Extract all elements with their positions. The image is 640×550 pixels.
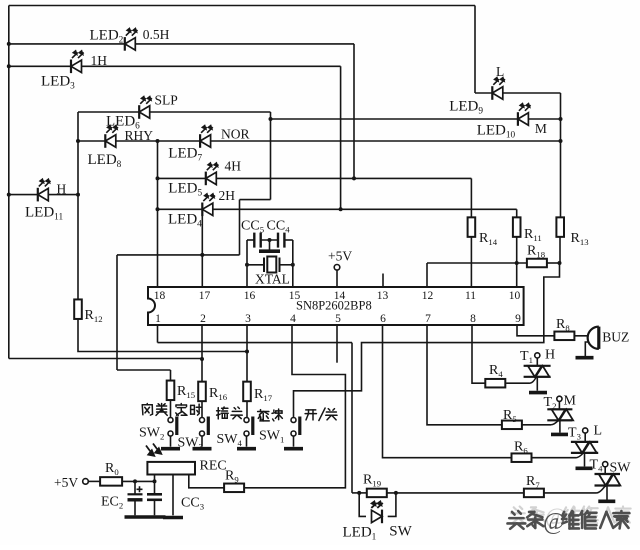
- node p10-r18: [515, 261, 519, 265]
- wire +5V to R0: [88, 480, 100, 482]
- wire row y255: [117, 254, 240, 256]
- wire LED11 row: [9, 194, 78, 196]
- wire T1 gate diagonal: [530, 377, 537, 384]
- wire cc mid lead: [261, 239, 278, 241]
- svg-text:LED5: LED5: [168, 181, 202, 199]
- svg-text:6: 6: [380, 313, 386, 325]
- wire REC right pin to R9: [189, 475, 225, 488]
- IR receiver REC: [146, 444, 195, 475]
- wire SLP jog v: [239, 200, 241, 255]
- node slp-led10: [269, 117, 273, 121]
- node p2-rail: [200, 357, 204, 361]
- wire T1 top lead: [536, 358, 538, 366]
- svg-text:4: 4: [290, 313, 296, 325]
- wire SW4 to ground: [246, 436, 248, 447]
- wire pin4 to R9 route: [244, 325, 346, 488]
- resistor R8: [554, 332, 574, 341]
- label label 定时 timer: [176, 404, 202, 416]
- triac T3: [571, 442, 598, 453]
- wire row y255 to R15 v: [116, 255, 118, 370]
- crystal XTAL: [264, 257, 280, 273]
- ground SW2 ground: [161, 447, 180, 451]
- wire LED10 row: [271, 118, 561, 120]
- wire R19 left lead: [352, 492, 367, 494]
- wire R8 to BUZ: [574, 335, 592, 337]
- svg-text:L: L: [496, 64, 504, 79]
- svg-text:XTAL: XTAL: [255, 272, 290, 287]
- svg-text:18: 18: [154, 290, 166, 302]
- wire T4 top lead: [604, 467, 606, 474]
- resistor R7: [524, 489, 544, 498]
- svg-text:7: 7: [425, 313, 431, 325]
- ground T2 ground: [551, 433, 568, 437]
- wire 0.5H drop: [353, 44, 355, 179]
- wire R11 top: [516, 209, 518, 217]
- terminal +5V left: [83, 479, 89, 485]
- terminal T4: [603, 462, 608, 467]
- wire T3 bottom lead: [584, 453, 586, 467]
- label label 调速 speed: [258, 409, 283, 421]
- wire LED3 1H row: [9, 65, 341, 67]
- wire R14 top: [470, 178, 472, 217]
- wire anode column: [77, 112, 79, 299]
- wire pin6 to R6 route: [383, 325, 512, 458]
- label watermark glyph: [582, 507, 597, 524]
- node 1h-2h: [339, 207, 343, 211]
- wire T1 bottom lead: [536, 377, 538, 391]
- node p18-4h: [156, 176, 160, 180]
- label watermark glyph: [600, 512, 613, 528]
- svg-text:BUZ: BUZ: [602, 330, 629, 345]
- resistor R19: [367, 489, 387, 498]
- resistor R16: [198, 382, 206, 402]
- svg-text:LED3: LED3: [41, 74, 75, 92]
- label watermark glyph: [527, 512, 543, 528]
- wire EC2 top lead: [134, 481, 136, 494]
- node xtal right: [291, 263, 295, 267]
- node cc-mid: [268, 238, 272, 242]
- wire SLP jog h: [240, 199, 271, 201]
- wire R19 to R7 row: [387, 492, 525, 494]
- wire SW1 to ground: [293, 436, 295, 447]
- wire pin3 stub: [246, 325, 248, 382]
- label watermark glyph: [562, 511, 579, 528]
- wire R15 to SW2: [170, 399, 172, 417]
- wire row y255 to R15 h: [117, 369, 171, 371]
- svg-text:2H: 2H: [219, 188, 236, 203]
- capacitor EC2 electrolytic: [128, 486, 143, 500]
- wire top bus drop right: [474, 6, 476, 94]
- LED LED2: [125, 29, 138, 51]
- wire pin15 riser: [292, 240, 294, 287]
- LED LED6: [139, 97, 152, 119]
- resistor R0: [100, 477, 122, 486]
- wire R15 top stub: [170, 370, 172, 381]
- switch SW1: [291, 417, 300, 437]
- svg-text:1H: 1H: [91, 53, 108, 68]
- wire T2 gate diagonal: [551, 420, 559, 425]
- wire 1H drop: [340, 66, 342, 209]
- wire pin9 to R8 route: [517, 325, 555, 336]
- wire CC3 bottom lead: [154, 500, 156, 516]
- svg-text:1: 1: [155, 313, 161, 325]
- node r19-left: [357, 491, 361, 495]
- label watermark glyph: [564, 507, 580, 524]
- svg-text:SLP: SLP: [155, 93, 178, 108]
- svg-text:SN8P2602BP8: SN8P2602BP8: [296, 299, 372, 313]
- resistor R12: [74, 299, 82, 319]
- wire pin1 row: [158, 342, 353, 344]
- svg-text:LED8: LED8: [88, 152, 122, 170]
- label label 开/关 on-off: [305, 408, 337, 421]
- wire R6 to T3 gate: [531, 457, 576, 459]
- capacitor CC3: [147, 494, 162, 500]
- wire pin18 column: [157, 141, 159, 287]
- svg-text:+5V: +5V: [54, 475, 78, 490]
- wire T3 top lead: [584, 433, 586, 442]
- wire T4 gate diagonal: [597, 486, 606, 493]
- LED LED11: [38, 179, 51, 201]
- wire R12 to pin3 row: [78, 319, 247, 352]
- ground xtal cap ground: [259, 249, 280, 253]
- node led9col-led10: [559, 117, 563, 121]
- svg-text:L: L: [594, 424, 603, 439]
- LED LED7: [200, 126, 213, 148]
- label watermark glyph: [529, 507, 544, 522]
- wire SW2 to ground: [170, 436, 172, 447]
- svg-text:SW: SW: [389, 524, 412, 540]
- resistor R14: [468, 217, 476, 237]
- ground CC3 ground: [146, 515, 166, 519]
- wire R13 column: [560, 93, 562, 217]
- resistor R5: [502, 421, 522, 430]
- wire T2 bottom lead: [559, 420, 561, 432]
- svg-text:SW: SW: [610, 461, 632, 476]
- svg-text:LED2: LED2: [90, 28, 124, 46]
- node r18-right: [558, 261, 562, 265]
- ground T4 ground: [598, 499, 615, 503]
- node anode-rhy: [76, 139, 80, 143]
- svg-text:@: @: [543, 509, 565, 535]
- capacitor CC5: [254, 233, 260, 248]
- capacitor CC4: [278, 233, 284, 248]
- svg-text:11: 11: [465, 290, 476, 302]
- wire cc ground stub: [269, 240, 271, 250]
- node p18-2h: [156, 207, 160, 211]
- wire xtal row right: [280, 264, 293, 266]
- triac T2: [547, 409, 573, 420]
- buzzer BUZ: [588, 327, 599, 349]
- wire R7 right lead: [543, 492, 597, 494]
- svg-text:LED4: LED4: [168, 212, 202, 230]
- svg-text:H: H: [57, 182, 67, 197]
- resistor R9: [224, 484, 244, 493]
- ground T3 ground: [576, 466, 593, 470]
- label watermark glyph: [510, 507, 527, 524]
- svg-text:13: 13: [377, 290, 389, 302]
- ground BUZ ground: [576, 356, 594, 360]
- wire SW3 to ground: [201, 436, 203, 447]
- wire LED2 0.5H row: [9, 43, 354, 45]
- wire pin2 stub: [201, 325, 203, 382]
- wire R18 right lead: [546, 262, 559, 264]
- node rail-led11: [7, 193, 11, 197]
- wire BUZ ground lead: [585, 342, 591, 356]
- svg-text:LED9: LED9: [449, 99, 483, 117]
- wire top bus: [9, 5, 475, 7]
- node p18-rhy: [156, 139, 160, 143]
- LED LED3: [71, 51, 84, 73]
- wire pin1 stub: [157, 325, 159, 343]
- label watermark glyph: [508, 511, 526, 529]
- wire row y263 pin12-R18: [427, 262, 528, 264]
- label watermark glyph: [602, 507, 614, 522]
- ground SW4 ground: [237, 447, 256, 451]
- svg-text:M: M: [564, 394, 577, 409]
- wire SLP drop: [270, 112, 272, 200]
- node p17-y255: [200, 253, 204, 257]
- switch SW2: [168, 417, 177, 437]
- wire pin7 to R5 route: [427, 325, 502, 425]
- svg-text:0.5H: 0.5H: [143, 27, 170, 42]
- node anode-led11: [76, 193, 80, 197]
- label label 摇头 oscillate: [217, 407, 243, 419]
- svg-text:H: H: [545, 348, 555, 363]
- triac T1: [524, 366, 551, 377]
- op-amp U1 SN8P2602BP8 IC body: [148, 287, 524, 325]
- wire T3 gate diagonal: [576, 453, 584, 458]
- svg-text:NOR: NOR: [221, 127, 250, 142]
- node r19-right: [394, 491, 398, 495]
- wire pin1 to R19 v: [351, 343, 353, 493]
- svg-text:+5V: +5V: [328, 249, 352, 264]
- ground SW3 ground: [193, 447, 212, 451]
- svg-text:5: 5: [335, 313, 341, 325]
- resistor R13: [556, 217, 564, 237]
- resistor R4: [485, 379, 505, 388]
- terminal T2: [557, 396, 562, 401]
- wire R18 jog down: [294, 263, 560, 418]
- terminal T1: [535, 353, 540, 358]
- ground SW1 ground: [284, 447, 303, 451]
- node rail-ec2: [133, 479, 137, 483]
- svg-text:RHY: RHY: [125, 128, 154, 143]
- wire pin12 riser: [426, 263, 428, 287]
- triac T4: [595, 474, 621, 486]
- LED LED1: [371, 502, 383, 524]
- wire R17 to SW4: [246, 401, 248, 417]
- LED LED8: [105, 126, 118, 148]
- wire CC3 top lead: [154, 481, 156, 494]
- wire R16 to SW3: [201, 401, 203, 417]
- svg-text:REC: REC: [200, 459, 227, 474]
- node rail-led2: [7, 42, 11, 46]
- LED LED4: [202, 194, 215, 216]
- wire cc5 left lead: [247, 239, 254, 241]
- resistor R6: [512, 453, 532, 462]
- node xtal left: [245, 263, 249, 267]
- resistor R17: [243, 382, 251, 402]
- wire 2H row: [158, 208, 517, 210]
- wire REC center pin: [172, 475, 174, 516]
- LED LED10: [518, 104, 531, 126]
- ground T1 ground: [529, 391, 547, 395]
- svg-text:4H: 4H: [225, 159, 242, 174]
- svg-text:LED1: LED1: [343, 525, 377, 543]
- wire R0 to REC rail: [122, 480, 154, 482]
- wire R4 to T1 gate: [506, 382, 529, 384]
- node 05h-4h: [352, 176, 356, 180]
- wire LED1 loop left: [359, 493, 366, 517]
- svg-text:3: 3: [245, 313, 251, 325]
- wire cc4 right lead: [284, 239, 292, 241]
- LED LED9: [492, 78, 505, 100]
- wire 4H row: [158, 177, 472, 179]
- switch SW3: [200, 417, 209, 437]
- wire xtal row left: [247, 264, 264, 266]
- svg-text:16: 16: [244, 290, 256, 302]
- label watermark glyph: [613, 511, 629, 528]
- ground EC2 ground: [125, 515, 146, 519]
- resistor R11: [513, 217, 521, 237]
- ground REC ground: [163, 516, 183, 520]
- node led9col-rhy: [559, 139, 563, 143]
- wire pin14 riser: [336, 270, 338, 287]
- terminal T3: [583, 428, 588, 433]
- switch SW4: [244, 417, 253, 437]
- node p3-r12: [245, 350, 249, 354]
- resistor R18: [527, 259, 547, 268]
- wire pin5 stub: [336, 325, 338, 363]
- wire left rail to pin2: [9, 358, 202, 360]
- svg-text:2: 2: [200, 313, 206, 325]
- terminal +5V pin14: [334, 265, 340, 271]
- label watermark glyph: [580, 511, 596, 528]
- node rail-led3: [7, 64, 11, 68]
- wire RHY NOR row: [78, 140, 561, 142]
- wire LED9 row: [475, 92, 561, 94]
- svg-text:8: 8: [470, 313, 476, 325]
- wire R5 to T2 gate: [522, 424, 551, 426]
- LED LED5: [206, 163, 219, 185]
- svg-text:10: 10: [509, 290, 521, 302]
- svg-text:17: 17: [199, 290, 211, 302]
- wire pin13 stub: [382, 274, 384, 288]
- wire T4 bottom lead: [606, 486, 608, 500]
- wire R11 to pin10: [516, 237, 518, 287]
- wire pin17 column: [201, 209, 203, 287]
- resistor R15: [167, 381, 175, 401]
- wire SLP row: [78, 111, 271, 113]
- svg-text:9: 9: [515, 313, 521, 325]
- wire LED1 loop right: [388, 493, 396, 517]
- wire EC2 bottom lead: [134, 500, 136, 516]
- wire T2 top lead: [558, 401, 560, 409]
- svg-text:LED7: LED7: [168, 146, 202, 164]
- wire left rail: [8, 6, 10, 359]
- wire R14 to pin11: [470, 237, 472, 287]
- svg-text:M: M: [535, 121, 547, 136]
- node rail-cc3: [153, 479, 157, 483]
- wire REC left pin: [154, 475, 156, 482]
- wire R13 bottom: [559, 237, 561, 263]
- svg-text:12: 12: [422, 290, 434, 302]
- wire pin16 riser: [246, 240, 248, 287]
- wire pin8 to R4 route: [472, 325, 485, 383]
- label label 风类 fan-mode: [142, 404, 167, 416]
- label watermark glyph: [615, 507, 630, 524]
